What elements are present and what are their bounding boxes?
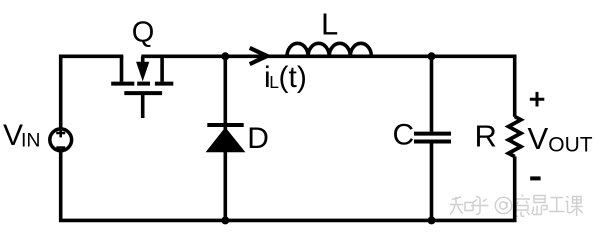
body arrow triangle xyxy=(136,62,149,82)
source plus xyxy=(56,129,65,138)
source drop xyxy=(160,56,164,81)
node B: cap top junction dot xyxy=(428,52,436,60)
capacitor C bottom plate xyxy=(414,140,451,144)
wire top rail right of transistor to top-right corner down to resistor xyxy=(141,56,514,116)
svg-text:L: L xyxy=(321,7,338,42)
watermark zhihu xyxy=(450,195,583,217)
node C: diode bottom junction dot xyxy=(221,216,229,224)
capacitor C top plate xyxy=(414,132,451,136)
svg-text:C: C xyxy=(393,119,415,152)
watermark char ang xyxy=(532,196,548,215)
svg-text:Q: Q xyxy=(132,16,155,48)
wire capacitor branch bottom xyxy=(430,144,434,221)
resistor R zigzag xyxy=(509,117,521,157)
watermark at sign xyxy=(495,197,511,213)
node A: switch node junction dot xyxy=(221,52,229,60)
middle contact bar xyxy=(137,82,150,86)
wire left bottom + bottom rail + right riser bottom xyxy=(61,151,515,220)
svg-text:IN: IN xyxy=(21,130,41,152)
svg-text:(t): (t) xyxy=(279,61,307,94)
source minus xyxy=(56,146,65,149)
svg-text:D: D xyxy=(247,122,269,155)
inductor L xyxy=(287,43,371,56)
diode D triangle xyxy=(206,127,246,152)
current arrow iL xyxy=(250,48,268,64)
watermark char zhi xyxy=(450,197,463,215)
label minus output xyxy=(530,176,540,180)
node D: cap bottom junction dot xyxy=(428,216,436,224)
wire capacitor branch top xyxy=(430,56,434,131)
watermark char ke xyxy=(566,196,583,216)
drain contact bar xyxy=(111,82,134,86)
watermark char hu xyxy=(471,196,489,215)
svg-text:R: R xyxy=(475,119,497,154)
wire diode branch xyxy=(224,56,228,220)
svg-text:V: V xyxy=(3,119,23,152)
watermark char gong xyxy=(549,198,565,212)
svg-text:OUT: OUT xyxy=(548,134,593,157)
voltage source VIN circle xyxy=(50,129,72,151)
diode D cathode bar xyxy=(207,123,243,127)
wire top-left L from source top up and right to transistor drain xyxy=(61,56,124,128)
svg-text:V: V xyxy=(528,121,549,156)
drain drop xyxy=(120,56,124,81)
body arrow stub xyxy=(141,56,145,63)
source contact bar xyxy=(155,82,173,86)
watermark char yi xyxy=(514,195,531,217)
transistor Q (MOSFET) xyxy=(111,56,173,118)
label plus output xyxy=(530,92,545,107)
gate lead xyxy=(141,95,145,118)
gate plate xyxy=(124,91,162,95)
